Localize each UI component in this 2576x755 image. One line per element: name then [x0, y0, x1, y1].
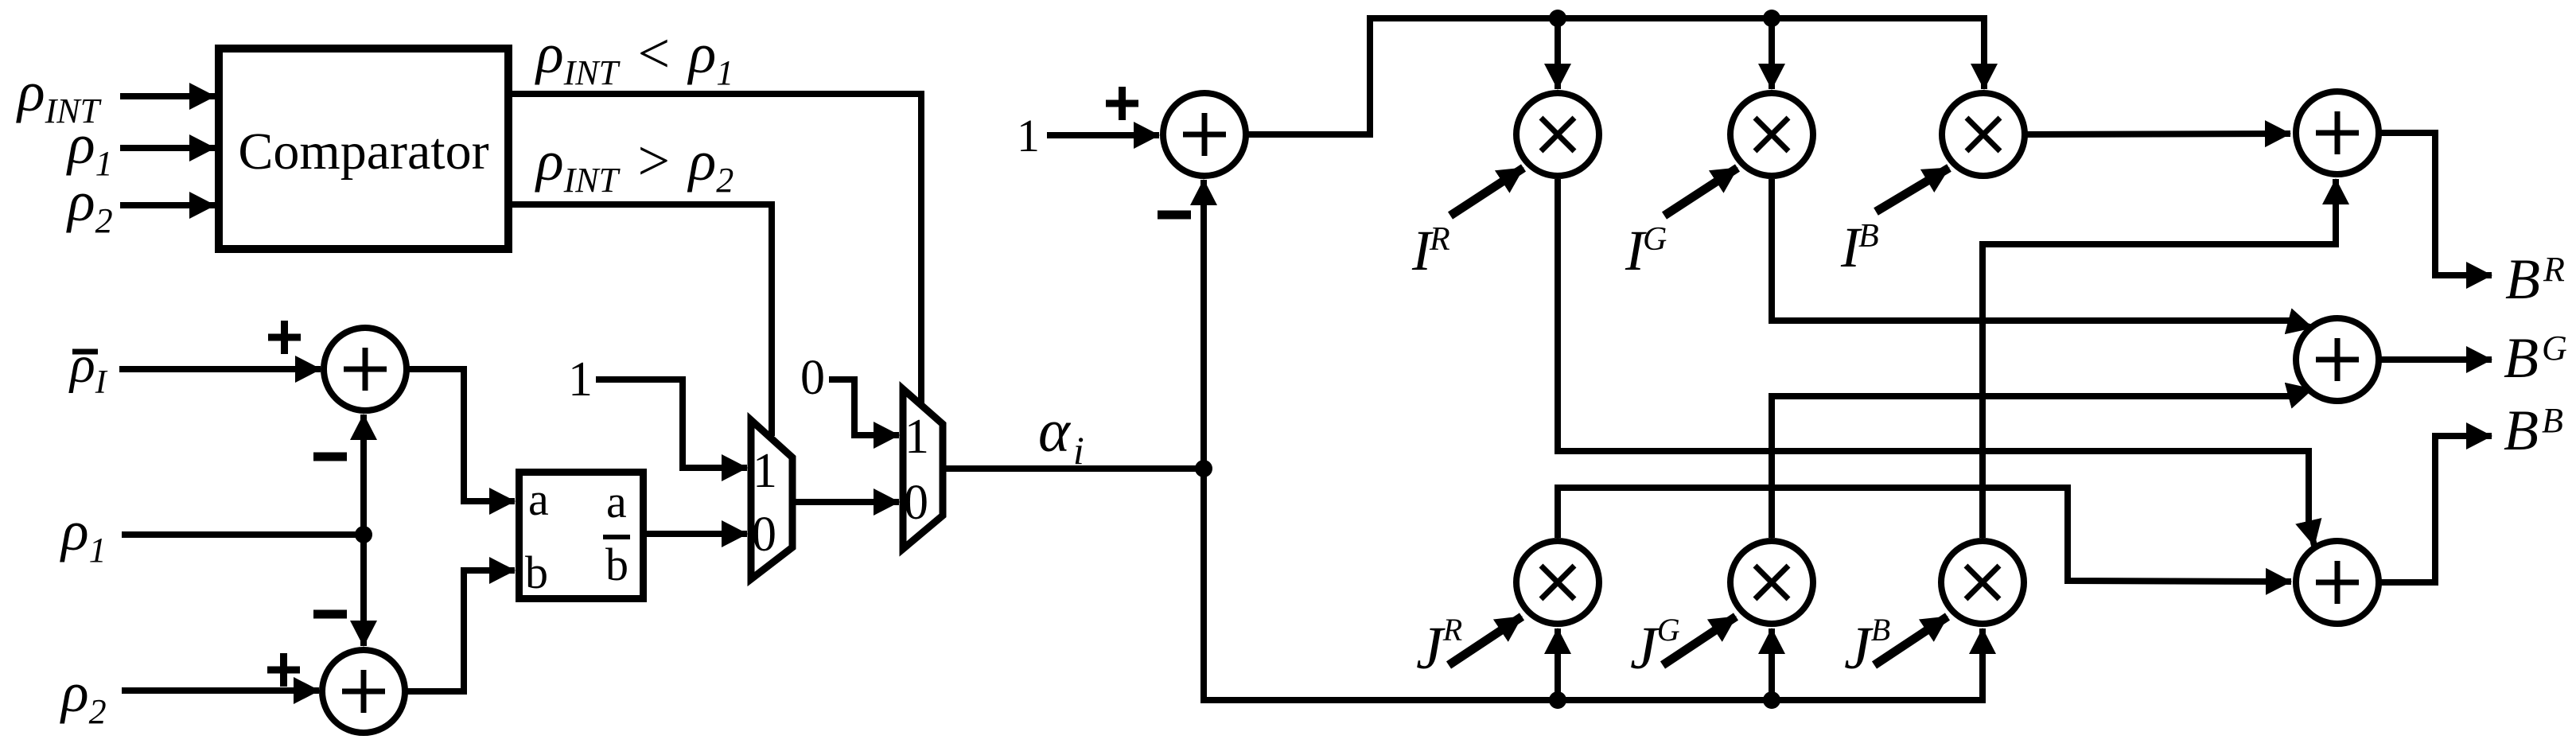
svg-text:BG: BG — [2504, 326, 2567, 390]
wire N1 output to adder A4 left input — [1558, 488, 2291, 582]
wire divider output to mux U2 input 0 — [647, 531, 747, 537]
svg-text:ρINT<ρ1: ρINT<ρ1 — [535, 21, 733, 92]
adder A3 — [2296, 318, 2379, 401]
multiplier N3 — [1941, 541, 2024, 624]
wire drop to multiplier M2 — [1769, 18, 1775, 89]
wire M1 output to adder A4 top input — [1558, 179, 2309, 525]
multiplier M3 — [1942, 93, 2025, 176]
svg-text:1: 1 — [1017, 110, 1040, 162]
wire N3 output to adder A2 bottom input — [1983, 179, 2336, 538]
svg-text:1: 1 — [905, 410, 929, 464]
svg-text:b: b — [525, 547, 548, 598]
wire I_B diagonal arrow into M3 — [1876, 168, 1949, 212]
wire rise to multiplier N2 — [1769, 629, 1775, 700]
svg-text:ρ2: ρ2 — [60, 660, 107, 731]
svg-text:b: b — [605, 539, 628, 590]
wire rho_1 input — [120, 145, 215, 151]
wire drop to multiplier M1 — [1555, 18, 1561, 89]
wire A4 output to B_B — [2379, 436, 2492, 582]
svg-text:ρ1: ρ1 — [60, 499, 107, 570]
svg-text:BB: BB — [2504, 399, 2563, 462]
wire M3 output to adder A2 left input — [2025, 134, 2290, 134]
svg-text:0: 0 — [752, 508, 776, 562]
adder S2 — [322, 650, 405, 733]
mux U3 — [903, 389, 943, 549]
minus sign at A1 lower input — [1158, 211, 1191, 220]
wire rho_INT input — [120, 93, 215, 99]
wire S1 output to divider a input — [405, 369, 515, 501]
wire alpha_i up to adder A1 minus input — [1200, 180, 1207, 469]
svg-text:IR: IR — [1411, 219, 1450, 282]
multiplier M1 — [1516, 93, 1599, 176]
svg-text:ρINT>ρ2: ρINT>ρ2 — [535, 129, 733, 200]
adder A4 — [2296, 541, 2379, 624]
wire I_G diagonal arrow into M2 — [1664, 168, 1737, 216]
wire constant 1 to adder A1 — [1047, 132, 1159, 138]
node junction bottom bus N2 — [1763, 691, 1780, 709]
svg-text:1: 1 — [753, 444, 777, 498]
wire N2 output to adder A3 lower input — [1772, 396, 2290, 538]
svg-text:Comparator: Comparator — [238, 123, 488, 181]
wire constant 1 to mux U2 input 1 — [596, 379, 747, 468]
wire M2 output to adder A3 upper input — [1772, 179, 2290, 321]
wire comparator out2 to mux U2 select — [512, 204, 772, 436]
multiplier M2 — [1730, 93, 1813, 176]
wire S2 output to divider b input — [403, 570, 515, 691]
svg-text:ρI: ρI — [68, 336, 108, 401]
wire rho_2 input to adder S2 — [122, 687, 319, 694]
minus sign at S2 upper input — [313, 610, 347, 619]
node junction bottom bus N1 — [1549, 691, 1566, 709]
wire rho_1 to junction — [122, 531, 364, 538]
svg-text:JR: JR — [1416, 612, 1462, 682]
svg-text:0: 0 — [904, 476, 928, 530]
svg-text:IG: IG — [1625, 219, 1667, 282]
wire rho_2 input — [120, 202, 215, 208]
svg-text:JG: JG — [1630, 612, 1680, 682]
wire comparator out1 to mux U3 select — [512, 94, 921, 404]
wire rise to multiplier N1 — [1555, 629, 1561, 700]
svg-text:a: a — [606, 476, 627, 527]
svg-text:IB: IB — [1840, 216, 1879, 279]
svg-text:1: 1 — [568, 352, 593, 407]
svg-text:αi: αi — [1038, 398, 1084, 473]
node junction top bus M1 — [1549, 10, 1566, 27]
plus sign at A1 input — [1106, 87, 1138, 120]
node junction rho_1 — [355, 526, 372, 543]
mux U2 — [751, 420, 792, 579]
wire rho_bar_I input to adder S1 — [119, 366, 321, 372]
adder S1 — [324, 328, 407, 411]
wire junction up to S1 minus input — [360, 414, 367, 535]
wire A1 output to top bus — [1246, 18, 1984, 134]
wire junction down to S2 minus input — [360, 535, 367, 646]
wire mux U2 output to mux U3 input 0 — [792, 499, 899, 505]
divider U5 box — [519, 473, 644, 599]
multiplier N1 — [1516, 541, 1599, 624]
node junction alpha_i — [1195, 460, 1212, 477]
adder A1 — [1163, 93, 1246, 176]
svg-text:BR: BR — [2505, 247, 2565, 311]
svg-text:a: a — [528, 473, 549, 525]
wire I_R diagonal arrow into M1 — [1450, 168, 1523, 216]
svg-text:0: 0 — [800, 351, 825, 405]
minus sign at S1 lower input — [313, 453, 347, 461]
svg-text:JB: JB — [1844, 612, 1890, 682]
adder A2 — [2296, 91, 2379, 174]
wire alpha_i down to bottom bus and N3 — [1204, 469, 1983, 700]
plus sign at S1 input — [268, 321, 301, 354]
wire constant 0 to mux U3 input 1 — [829, 379, 899, 435]
node junction top bus M2 — [1763, 10, 1780, 27]
wire alpha_i from mux U3 output — [943, 465, 1204, 472]
wire J_G diagonal arrow into N2 — [1663, 617, 1736, 665]
wire A3 output to B_G — [2379, 356, 2492, 363]
wire J_R diagonal arrow into N1 — [1449, 617, 1522, 665]
multiplier N2 — [1730, 541, 1813, 624]
wire J_B diagonal arrow into N3 — [1874, 617, 1948, 665]
comparator U1 box — [219, 49, 508, 249]
wire A2 output to B_R — [2379, 133, 2492, 275]
plus sign at S2 input — [267, 653, 300, 687]
